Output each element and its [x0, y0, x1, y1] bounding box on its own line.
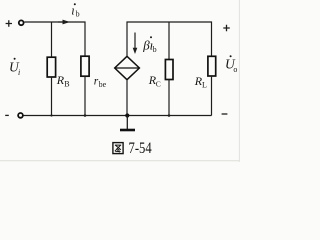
label U_o (output voltage): [225, 55, 237, 74]
svg-text:o: o: [233, 65, 237, 74]
svg-text:7-54: 7-54: [129, 140, 152, 157]
label r_be: [94, 76, 107, 89]
label + (output polarity): [223, 25, 230, 31]
node: junction R_C / bottom rail: [168, 114, 171, 117]
resistor R_C: [165, 60, 173, 80]
wire: R_C branch upper: [168, 22, 170, 60]
node: - input terminal (open circle): [18, 113, 23, 118]
label U_i (input voltage): [9, 58, 20, 77]
label - (output polarity): [222, 113, 228, 115]
wire: controlled-source branch lower: [126, 80, 128, 116]
node: junction R_B / bottom rail: [50, 114, 52, 116]
svg-text:be: be: [99, 80, 107, 89]
wire: R_B branch lower: [51, 77, 53, 116]
label R_C: [148, 73, 161, 88]
svg-text:L: L: [202, 81, 207, 90]
svg-text:B: B: [64, 80, 69, 89]
svg-text:b: b: [76, 10, 80, 19]
ground: [120, 116, 135, 131]
caption: Chinese character tu (figure) drawn as glyph: [113, 143, 123, 154]
wire: R_C branch lower: [168, 80, 170, 116]
resistor r_be: [81, 56, 89, 76]
border: faint scan edges: [0, 160, 240, 162]
wire: R_L branch lower (corner to bottom rail): [211, 76, 213, 116]
wire: r_be branch lower: [84, 76, 86, 115]
label R_L: [194, 74, 207, 90]
resistor R_L: [208, 56, 216, 76]
svg-text:C: C: [156, 79, 161, 88]
wire: current arrow i_b on top-left wire: [58, 21, 63, 23]
node: junction current source / bottom rail: [125, 113, 129, 117]
label - (input polarity): [5, 114, 9, 116]
svg-text:ı: ı: [71, 3, 74, 17]
label beta*i_b with direction arrow: [133, 33, 157, 55]
label + (input polarity): [6, 20, 12, 26]
wire: top-right segment with corners to current source and R_L: [127, 22, 212, 56]
resistor R_B: [47, 57, 55, 77]
wire: top-left segment from input terminal to r_be corner: [24, 22, 85, 56]
label R_B: [56, 73, 70, 88]
svg-text:b: b: [153, 45, 157, 54]
wire: R_B branch upper: [51, 22, 53, 57]
node: + input terminal (open circle): [19, 20, 24, 25]
svg-text:i: i: [18, 68, 20, 77]
wire: bottom rail: [23, 115, 211, 117]
node: junction r_be / bottom rail: [84, 114, 87, 117]
label i_b (phasor current): [71, 3, 79, 18]
current source beta*i_b (diamond): [115, 56, 140, 79]
